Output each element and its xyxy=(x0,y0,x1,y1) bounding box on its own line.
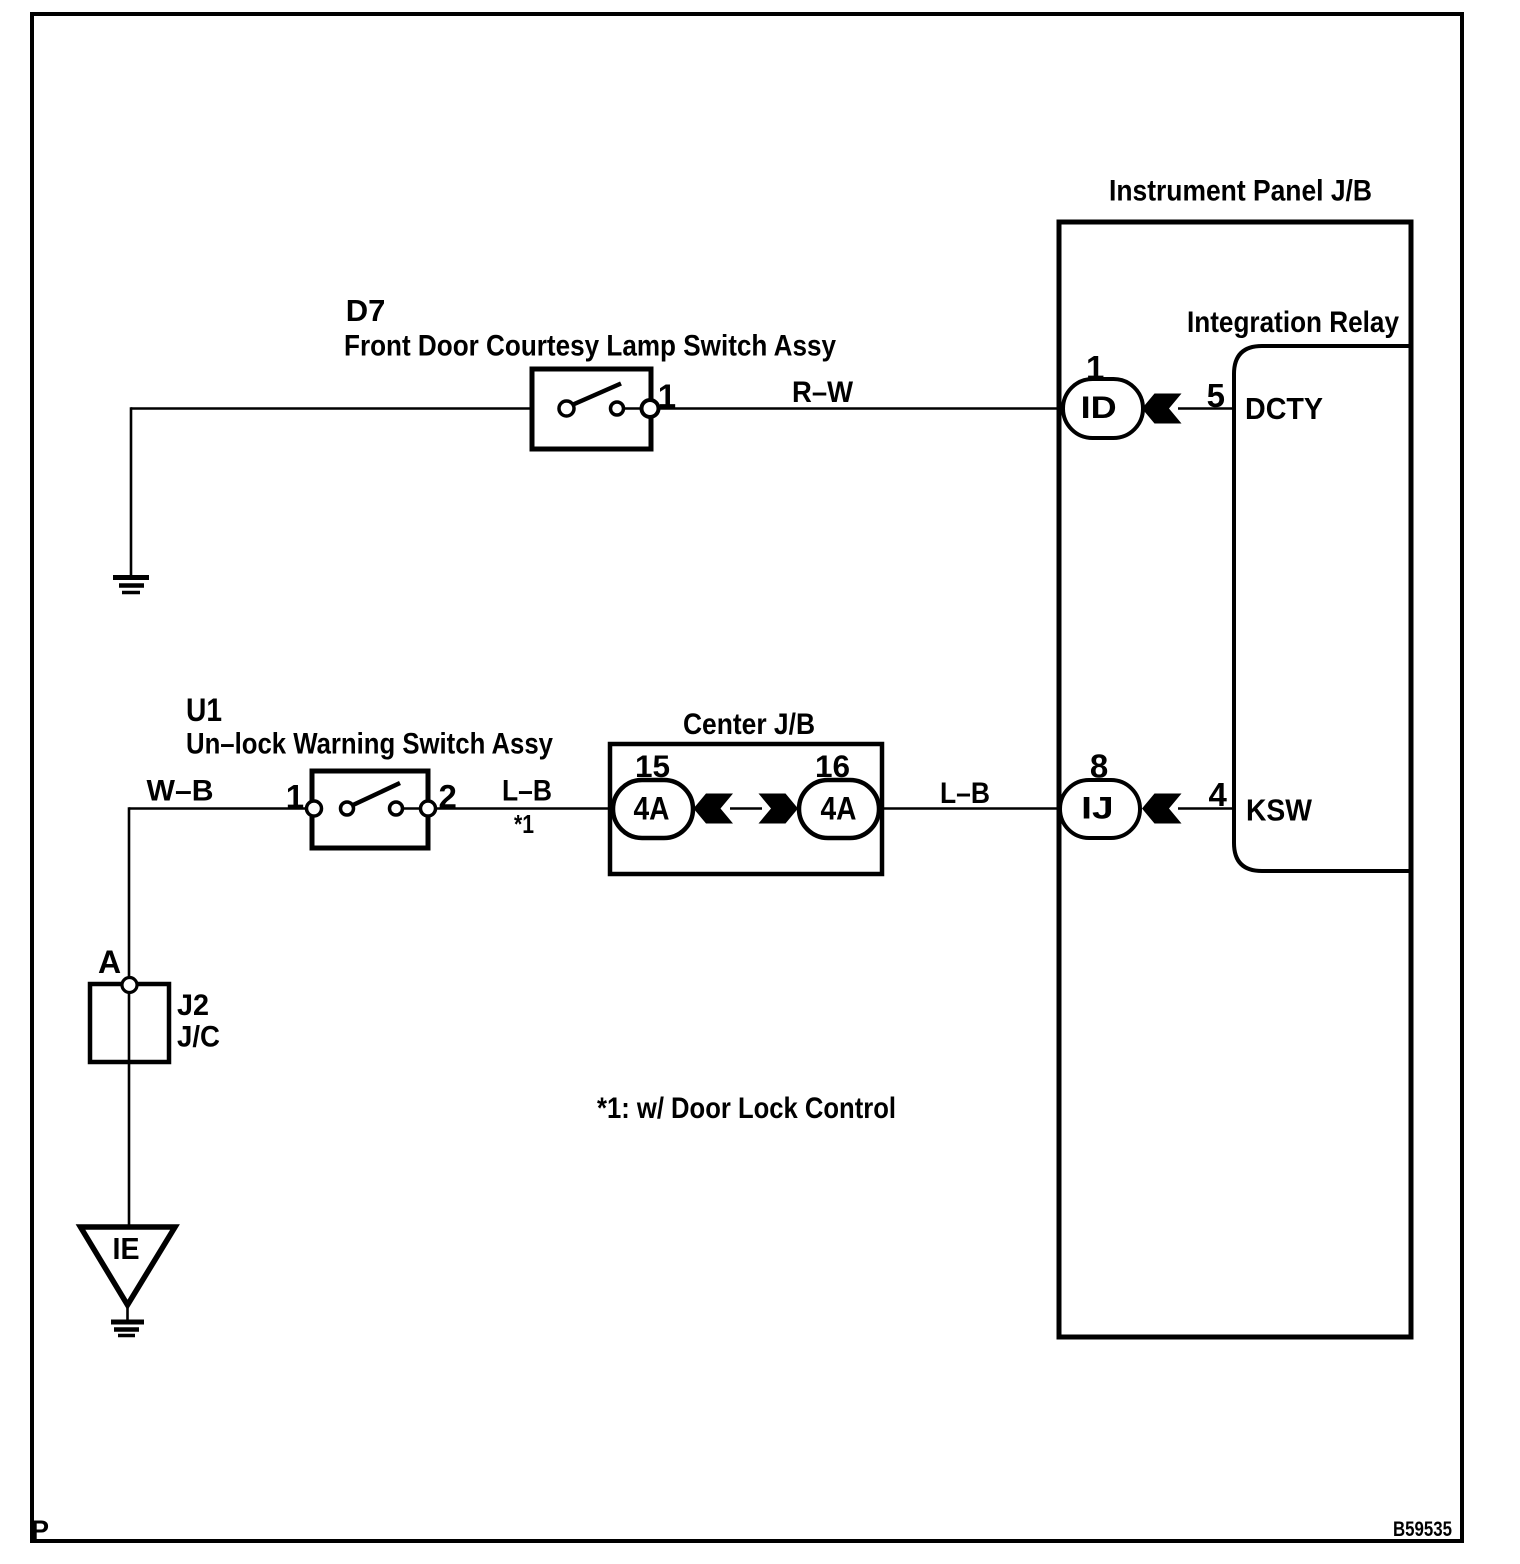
svg-text:J/C: J/C xyxy=(177,1021,220,1054)
note *1: w/ Door Lock Control xyxy=(597,1092,896,1125)
svg-text:IE: IE xyxy=(113,1231,140,1266)
svg-text:15: 15 xyxy=(635,748,670,784)
svg-text:Instrument Panel J/B: Instrument Panel J/B xyxy=(1109,175,1372,208)
switch U1 contacts and lever xyxy=(307,783,436,816)
arrow left inside Center J/B xyxy=(694,794,734,824)
svg-text:4: 4 xyxy=(1209,776,1228,813)
svg-text:Front Door Courtesy Lamp Switc: Front Door Courtesy Lamp Switch Assy xyxy=(344,330,836,363)
wire label L-B xyxy=(502,775,552,808)
label Instrument Panel J/B xyxy=(1109,175,1372,208)
label J2 xyxy=(177,989,209,1022)
pin 15 xyxy=(635,748,670,784)
svg-text:4A: 4A xyxy=(821,791,857,827)
integration relay box xyxy=(1234,346,1411,871)
pin 1 of ID xyxy=(1086,349,1104,386)
wire top horizontal to D7 xyxy=(131,407,534,409)
svg-text:U1: U1 xyxy=(186,692,222,728)
relay terminal KSW xyxy=(1246,793,1313,828)
svg-text:*1: *1 xyxy=(514,809,534,839)
switch D7 box xyxy=(532,369,651,449)
pin 16 xyxy=(815,748,850,784)
wire relay DCTY to arrow xyxy=(1178,407,1236,409)
svg-text:KSW: KSW xyxy=(1246,793,1313,828)
label Un-lock Warning Switch Assy xyxy=(186,728,553,761)
wire label L-B xyxy=(940,777,990,810)
connector ID oval xyxy=(1063,379,1143,438)
svg-text:8: 8 xyxy=(1090,748,1108,785)
pin 1 of D7 xyxy=(658,378,676,415)
ground triangle IE xyxy=(81,1227,176,1305)
pin 8 of IJ xyxy=(1090,748,1108,785)
svg-text:W–B: W–B xyxy=(147,775,214,808)
svg-text:L–B: L–B xyxy=(940,777,990,810)
svg-text:B59535: B59535 xyxy=(1393,1517,1452,1541)
label D7 xyxy=(346,293,386,328)
svg-text:L–B: L–B xyxy=(502,775,552,808)
wire between arrows xyxy=(730,807,762,809)
ground (bottom) xyxy=(111,1322,144,1336)
wire vertical down to node A and J2 xyxy=(128,807,131,1227)
wire U1 to Center J/B (L-B) xyxy=(435,807,613,809)
svg-text:Center J/B: Center J/B xyxy=(683,708,815,741)
pin 1 of U1 xyxy=(286,778,304,815)
label Front Door Courtesy Lamp Switch Assy xyxy=(344,330,836,363)
label Integration Relay xyxy=(1187,306,1399,339)
svg-text:DCTY: DCTY xyxy=(1245,391,1323,426)
node A label xyxy=(98,944,121,980)
label U1 xyxy=(186,692,222,728)
svg-text:1: 1 xyxy=(286,778,304,815)
svg-text:A: A xyxy=(98,944,121,980)
svg-text:R–W: R–W xyxy=(792,376,854,409)
svg-text:5: 5 xyxy=(1207,377,1225,414)
junction J2 box xyxy=(90,984,169,1062)
arrow into ID xyxy=(1142,394,1182,424)
label Center J/B xyxy=(683,708,815,741)
label J/C xyxy=(177,1021,220,1054)
node A circle xyxy=(122,978,137,993)
svg-text:J2: J2 xyxy=(177,989,209,1022)
svg-text:Un–lock Warning Switch Assy: Un–lock Warning Switch Assy xyxy=(186,728,553,761)
fuse oval 4A pin 15 xyxy=(613,780,693,838)
pin 4 of relay xyxy=(1209,776,1228,813)
page letter P xyxy=(31,1515,49,1545)
svg-text:P: P xyxy=(31,1515,49,1545)
fuse oval 4A pin 16 xyxy=(799,780,879,838)
svg-text:16: 16 xyxy=(815,748,850,784)
wire label R-W xyxy=(792,376,854,409)
Instrument Panel J/B box xyxy=(1059,222,1411,1337)
wire W-B horizontal xyxy=(129,807,314,809)
svg-text:4A: 4A xyxy=(634,791,670,827)
pin 5 of relay xyxy=(1207,377,1225,414)
ground (top-left) xyxy=(113,578,149,593)
wire triangle to ground xyxy=(126,1303,129,1321)
wire D7 to ID (R-W) xyxy=(658,407,1063,409)
note marker *1 xyxy=(514,809,534,839)
wire label W-B xyxy=(147,775,214,808)
svg-text:IJ: IJ xyxy=(1081,790,1114,826)
arrow right inside Center J/B xyxy=(759,794,799,824)
figure number B59535 xyxy=(1393,1517,1452,1541)
wire top vertical drop to ground xyxy=(130,407,133,577)
relay terminal DCTY xyxy=(1245,391,1323,426)
connector IJ oval xyxy=(1060,780,1140,838)
switch D7 contacts and lever xyxy=(559,384,659,418)
switch U1 box xyxy=(312,771,428,848)
svg-text:*1: w/ Door Lock Control: *1: w/ Door Lock Control xyxy=(597,1092,896,1125)
svg-text:ID: ID xyxy=(1081,389,1117,425)
wire Center J/B to IJ (L-B) xyxy=(882,807,1060,809)
Center J/B box xyxy=(610,744,882,874)
svg-text:D7: D7 xyxy=(346,293,386,328)
svg-text:1: 1 xyxy=(1086,349,1104,386)
wire relay KSW to arrow xyxy=(1178,807,1236,809)
arrow into IJ xyxy=(1142,794,1182,824)
svg-text:Integration Relay: Integration Relay xyxy=(1187,306,1399,339)
pin 2 of U1 xyxy=(439,778,457,815)
